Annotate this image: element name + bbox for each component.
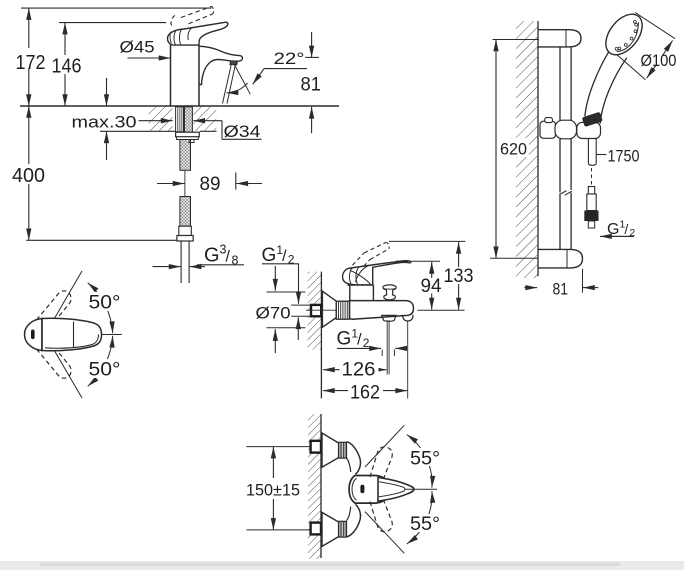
svg-text:81: 81 bbox=[553, 279, 569, 298]
svg-text:620: 620 bbox=[500, 140, 527, 159]
Ø34 leader step bbox=[221, 121, 223, 140]
cartridge dome top view bbox=[349, 476, 389, 504]
svg-text:G: G bbox=[607, 221, 619, 238]
rail bottom mount bbox=[538, 249, 583, 268]
knurled nut upper bbox=[339, 442, 347, 458]
basin lever raised dashed bbox=[171, 14, 178, 26]
angle line lower bbox=[50, 343, 82, 398]
angle line upper 55 bbox=[365, 425, 404, 467]
bath mixer body bbox=[350, 301, 414, 320]
55deg lower text bbox=[409, 514, 442, 532]
svg-text:94: 94 bbox=[421, 276, 442, 297]
svg-text:Ø100: Ø100 bbox=[641, 52, 677, 70]
svg-text:150±15: 150±15 bbox=[246, 480, 300, 499]
G3/8 arrow left bbox=[153, 266, 181, 268]
rail tube upper bbox=[559, 47, 561, 121]
lever top view bbox=[378, 478, 414, 502]
extension raised lever top bbox=[389, 240, 465, 242]
svg-text:172: 172 bbox=[16, 52, 46, 74]
dimension 126 line bbox=[323, 369, 335, 371]
G1/2 top arrow up bbox=[297, 317, 299, 340]
slider clamp bbox=[555, 120, 577, 139]
svg-text:G: G bbox=[204, 245, 220, 267]
22deg leader bbox=[253, 69, 307, 85]
bath lever raised dashed bbox=[345, 273, 347, 280]
extension 150 bottom bbox=[246, 529, 310, 531]
extension line top (raised lever height) bbox=[21, 7, 212, 9]
dimension 620 text bbox=[498, 138, 529, 157]
rail joint marks bbox=[559, 191, 566, 195]
hose end connector bbox=[588, 187, 594, 195]
hose axis line bbox=[184, 170, 186, 196]
bath lever handle bbox=[343, 261, 411, 285]
basin mixer spout bbox=[199, 46, 242, 84]
flexible hose segment 2 bbox=[180, 197, 191, 227]
diverter knob bbox=[383, 285, 396, 300]
svg-text:Ø70: Ø70 bbox=[256, 303, 291, 322]
wall line center bbox=[320, 272, 322, 399]
dimension 172 line bbox=[28, 8, 30, 106]
dimension 89 tick bbox=[235, 173, 237, 190]
G3/8 underline bbox=[197, 264, 244, 266]
Ø70 arrow up bbox=[274, 329, 276, 353]
hose dashed continuation bbox=[591, 168, 593, 186]
shower head bbox=[599, 7, 650, 61]
head face line bbox=[617, 22, 639, 51]
svg-text:89: 89 bbox=[200, 174, 221, 195]
svg-text:22°: 22° bbox=[274, 50, 305, 68]
angle line lower 55 bbox=[365, 512, 404, 554]
extension line 146 level bbox=[59, 22, 166, 24]
svg-text:133: 133 bbox=[444, 266, 474, 287]
body top view silhouette bbox=[347, 442, 361, 475]
dimension 620 ext top bbox=[493, 39, 540, 41]
dimension 620 line bbox=[495, 40, 497, 259]
dashed lever up top view bbox=[370, 447, 392, 482]
dimension 400 text bbox=[10, 164, 48, 184]
handset grip knurl bbox=[582, 112, 603, 127]
dashed lever down top view bbox=[370, 497, 392, 532]
Ø100 arrow upper bbox=[663, 41, 673, 56]
dimension 620 ext bottom bbox=[490, 257, 538, 259]
union centerline bbox=[306, 309, 344, 311]
dashed handle up 50deg bbox=[37, 291, 72, 331]
extension 162 right bbox=[407, 321, 409, 399]
Ø70 ext line D bbox=[267, 327, 306, 329]
G1/2 shower underline bbox=[607, 235, 634, 237]
rail top mount bbox=[538, 30, 581, 47]
Ø34 underline bbox=[222, 138, 262, 140]
55deg upper text bbox=[409, 448, 442, 466]
hose end nut bbox=[177, 236, 193, 242]
hose bottom reference line bbox=[26, 239, 177, 241]
dimension 146 line bbox=[64, 23, 66, 106]
connection tube G3/8 bbox=[180, 241, 182, 283]
max.30 up arrow bbox=[106, 131, 108, 160]
dimension 89 arrow left bbox=[157, 183, 185, 185]
svg-text:G: G bbox=[337, 329, 352, 350]
Ø100 arrow lower bbox=[647, 65, 657, 79]
G1/2 bottom arrow left bbox=[395, 347, 403, 349]
dimension 94 line bbox=[431, 262, 433, 278]
angle arc lower bbox=[407, 491, 432, 544]
wall hatching center bbox=[308, 272, 322, 350]
mounting shank bbox=[176, 107, 184, 132]
dimension 126 text bbox=[340, 360, 379, 377]
water stream lines bbox=[223, 65, 232, 104]
glide slider body bbox=[540, 121, 556, 138]
escutcheon cone bbox=[322, 291, 336, 327]
svg-text:2: 2 bbox=[288, 253, 295, 267]
22 degree direction line bbox=[234, 64, 250, 94]
G1/2 top underline bbox=[262, 263, 299, 265]
extension body axis bbox=[418, 309, 465, 311]
hose end nut black bbox=[584, 211, 598, 222]
svg-text:50°: 50° bbox=[89, 293, 121, 314]
dimension 89 arrow right bbox=[236, 183, 262, 185]
max.30 down arrow bbox=[106, 78, 108, 106]
Ø45 arrow bbox=[128, 57, 171, 59]
spout aerator bbox=[230, 61, 238, 65]
wall line bottom bbox=[320, 414, 322, 558]
Ø100 ext line lower bbox=[617, 55, 646, 80]
horizontal ref line bbox=[97, 334, 122, 336]
angle arc upper bbox=[407, 435, 432, 488]
union square bottom bbox=[311, 523, 321, 535]
Ø70 ext line B bbox=[291, 304, 311, 306]
extension lever top bbox=[412, 260, 441, 262]
svg-text:Ø45: Ø45 bbox=[120, 39, 155, 57]
G1/2 bottom underline bbox=[337, 347, 370, 349]
indicator dot bbox=[360, 485, 364, 493]
Ø70 ext line C bbox=[291, 315, 311, 317]
svg-text:400: 400 bbox=[12, 165, 45, 187]
svg-text:max.30: max.30 bbox=[72, 113, 137, 132]
dimension 162 line bbox=[323, 390, 335, 392]
knurled nut lower bbox=[339, 521, 347, 537]
dimension 172 text bbox=[13, 48, 47, 68]
flow angle arc bbox=[227, 83, 248, 93]
Ø70 ext line A bbox=[267, 291, 306, 293]
dimension 400 line bbox=[28, 106, 30, 240]
hose end connector bbox=[179, 226, 192, 235]
handle lever top view bbox=[42, 318, 102, 351]
dimension 81 lower arrow bbox=[311, 107, 313, 133]
svg-text:1750: 1750 bbox=[608, 146, 640, 165]
hose outlet stub bbox=[588, 221, 594, 228]
pivot cap inner dot bbox=[31, 330, 35, 340]
head nozzles bbox=[634, 20, 637, 23]
50deg lower text bbox=[87, 359, 122, 378]
G1/2 bottom arrow right bbox=[370, 347, 381, 349]
counter hatching right bbox=[193, 107, 216, 131]
cartridge housing bbox=[349, 285, 351, 301]
svg-text:162: 162 bbox=[350, 382, 380, 403]
svg-text:50°: 50° bbox=[89, 360, 121, 381]
G1/2 shower arrow bbox=[600, 235, 634, 237]
dimension 146 text bbox=[50, 55, 83, 74]
hose upper bbox=[587, 139, 589, 164]
G1/2 top arrow down bbox=[298, 264, 300, 304]
dimension 133 line bbox=[458, 242, 460, 267]
counter underside line bbox=[100, 130, 175, 132]
slider knob bbox=[545, 118, 553, 123]
svg-text:146: 146 bbox=[52, 56, 82, 78]
flexible hose segment 1 bbox=[180, 140, 191, 171]
union square fitting bbox=[311, 305, 321, 316]
angle arc upper bbox=[88, 283, 113, 334]
svg-text:Ø34: Ø34 bbox=[224, 123, 261, 141]
svg-text:81: 81 bbox=[301, 75, 322, 96]
svg-text:/: / bbox=[282, 248, 287, 265]
svg-text:2: 2 bbox=[629, 227, 635, 239]
knurled union nut bbox=[336, 301, 349, 319]
countertop line bbox=[20, 105, 339, 107]
dimension 150 line bbox=[272, 447, 274, 478]
angle line upper bbox=[50, 271, 82, 326]
svg-text:/: / bbox=[625, 222, 629, 237]
handset cone bbox=[585, 52, 609, 116]
mounting nut bbox=[176, 132, 200, 137]
basin mixer lever handle bbox=[167, 22, 227, 45]
shower outlet connector bbox=[403, 315, 413, 321]
union square top bbox=[311, 441, 321, 453]
Ø100 ext line upper bbox=[635, 13, 675, 39]
counter hatching left bbox=[149, 107, 173, 131]
angle arc lower bbox=[88, 336, 113, 387]
50deg upper text bbox=[87, 292, 122, 311]
Ø34 arrow right bbox=[193, 120, 208, 122]
svg-text:55°: 55° bbox=[410, 514, 440, 535]
bottom scan artifact bbox=[0, 561, 684, 570]
Ø34 arrow left bbox=[139, 120, 173, 122]
svg-text:8: 8 bbox=[232, 254, 239, 268]
svg-text:126: 126 bbox=[342, 359, 376, 380]
escutcheon top view lower bbox=[322, 512, 339, 546]
svg-text:/: / bbox=[226, 249, 231, 266]
rail tube lower bbox=[559, 139, 561, 193]
mounting washer bbox=[177, 137, 199, 140]
spout height extension line bbox=[305, 56, 319, 58]
svg-text:55°: 55° bbox=[410, 448, 440, 469]
water stream bath bbox=[386, 320, 388, 374]
dimension 81 shower line bbox=[524, 287, 537, 289]
handle pivot cap bbox=[25, 319, 43, 351]
G3/8 arrow right bbox=[190, 266, 205, 268]
svg-text:G: G bbox=[262, 245, 277, 266]
tub spout outlet bbox=[382, 315, 396, 321]
wall hatching shower bbox=[516, 21, 538, 278]
svg-text:/: / bbox=[357, 332, 362, 349]
1750 leader bbox=[597, 154, 607, 156]
extension 81 right bbox=[582, 269, 584, 293]
dimension 162 text bbox=[348, 382, 383, 399]
G1/2 ticks bbox=[381, 350, 383, 357]
slider holder cup bbox=[577, 122, 601, 138]
wall hatching bottom bbox=[308, 414, 321, 559]
wall line shower bbox=[537, 21, 539, 276]
axis line right bbox=[405, 488, 437, 490]
basin mixer body bbox=[171, 45, 200, 106]
dimension 81 upper arrow bbox=[311, 32, 313, 57]
escutcheon top view upper bbox=[322, 433, 339, 467]
dashed handle down 50deg bbox=[37, 339, 72, 379]
threaded stud upper bbox=[185, 107, 193, 132]
Ø70 arrow down bbox=[274, 266, 276, 291]
extension 150 top bbox=[246, 446, 310, 448]
